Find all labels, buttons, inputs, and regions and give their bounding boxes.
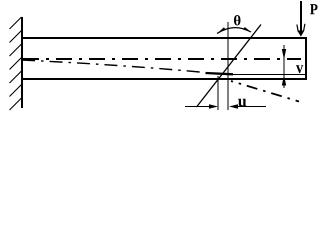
beam bottom edge — [21, 78, 307, 80]
beam right edge — [305, 37, 307, 80]
u dimension left arrowhead (points right) — [209, 104, 218, 109]
u dimension right arrowhead (points left) — [229, 104, 238, 109]
wall hatch 4 — [10, 58, 22, 70]
u dimension right line — [231, 106, 266, 108]
load P arrowhead right wing — [304, 24, 305, 31]
deflected axis curve (dash-dot) — [22, 60, 205, 73]
theta arc — [217, 28, 251, 34]
u left extension line — [217, 76, 219, 110]
theta arc left arrowhead — [217, 27, 226, 33]
deflected tangent dash-dot line — [231, 81, 299, 102]
wall hatch 7 — [10, 98, 22, 110]
wall hatch 3 — [10, 44, 22, 56]
deflected axis vertex dash — [206, 73, 234, 74]
fixed wall line — [21, 17, 23, 108]
wall hatch 5 — [10, 71, 22, 83]
label u — [238, 99, 246, 107]
v top arrowhead (points down to centerline) — [282, 49, 286, 60]
label v — [296, 65, 303, 73]
load P arrow shaft — [300, 1, 302, 32]
wall hatch 1 — [10, 17, 22, 29]
u dimension left line — [185, 106, 216, 108]
wall hatch 2 — [10, 31, 22, 43]
v dimension line — [283, 45, 285, 88]
beam centerline (dash-dot) — [23, 58, 301, 60]
load P arrowhead left wing — [297, 25, 298, 32]
theta arc right arrowhead — [243, 27, 251, 32]
deflected tip reference line — [233, 74, 306, 76]
label P — [310, 4, 318, 14]
load P arrowhead tip — [297, 31, 304, 37]
rotated section slanted line — [197, 25, 262, 108]
v bottom arrowhead (points up to reference line) — [282, 75, 286, 86]
label theta — [234, 15, 240, 25]
beam top edge — [21, 37, 307, 39]
wall hatch 6 — [10, 85, 22, 97]
section vertical line — [227, 22, 229, 110]
